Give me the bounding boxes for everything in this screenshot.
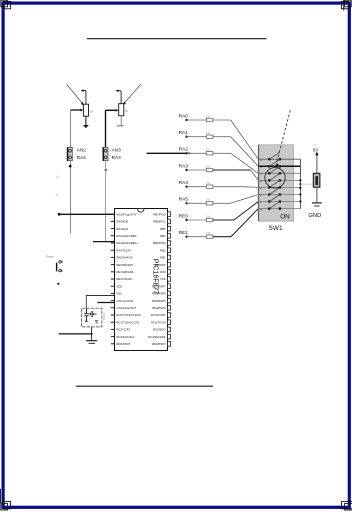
SW1 lever row 6	[269, 188, 280, 195]
svg-text:RA3/AN3/VREF+: RA3/AN3/VREF+	[116, 241, 138, 245]
svg-text:RC2/CCP1: RC2/CCP1	[116, 328, 130, 332]
svg-text:10k: 10k	[206, 148, 211, 152]
svg-text:10k: 10k	[206, 231, 211, 235]
U1 left pin 18	[111, 335, 135, 339]
svg-text:5V: 5V	[313, 147, 320, 152]
svg-text:RA4/T0CKI: RA4/T0CKI	[116, 248, 130, 252]
svg-text:RA0: RA0	[179, 113, 189, 119]
wire RA1 diagonal to SW1	[231, 137, 259, 167]
SW1 row 3 wire	[258, 172, 300, 174]
resistor R7 body	[206, 218, 213, 221]
U1 right pin 34	[160, 255, 170, 260]
U1 left pin 7	[111, 256, 133, 260]
U1 left pin 8	[111, 263, 134, 267]
resistor R4 body	[206, 168, 213, 171]
svg-text:RA5: RA5	[179, 197, 189, 203]
U1 left pin 16	[111, 320, 140, 324]
wire RA4 after resistor	[213, 186, 242, 188]
SW1 row 4 wire	[258, 179, 300, 181]
U1 right pin 25	[151, 320, 171, 325]
wire crystal box to ground	[91, 327, 93, 341]
wire RA4 diagonal to SW1	[242, 186, 258, 189]
node dot MCLR wire left end	[58, 213, 61, 216]
junction dot RE0	[185, 219, 187, 221]
ground (RV2, bar style)	[117, 125, 124, 127]
wire resistor to ground	[316, 187, 318, 203]
resistor R6 body	[206, 202, 213, 205]
wire RA2 from pot (bold)	[147, 152, 191, 154]
SW1 row 7 wire	[258, 201, 300, 203]
U1 right pin 29	[152, 291, 170, 296]
ground (RV1, arrow style)	[83, 125, 89, 128]
SW1 contact dots row 6	[268, 193, 281, 196]
U1 right pin 40	[153, 212, 170, 217]
wire RA0 after resistor	[213, 119, 231, 121]
SW1 lever row 8	[269, 202, 280, 209]
junction dot RA5	[185, 202, 187, 204]
U1 right pin 27	[152, 306, 170, 311]
SW1 row 1 wire	[258, 158, 300, 160]
svg-text:1k: 1k	[125, 109, 129, 113]
svg-text:SW1: SW1	[268, 225, 283, 232]
U1 right pin 24	[153, 327, 170, 332]
SW1 lever row 2	[269, 159, 280, 166]
svg-text:10k: 10k	[206, 181, 211, 185]
crystal X1	[88, 311, 96, 317]
SW1 contact dots row 2	[268, 165, 281, 168]
svg-text:RE1/WR/AN6: RE1/WR/AN6	[116, 270, 134, 274]
SW1 contact dots row 7	[268, 200, 281, 203]
U1 left pin 19	[111, 342, 131, 346]
wire RV1 top	[85, 91, 87, 105]
svg-text:RA1: RA1	[179, 130, 189, 136]
wire MCLR (pin1)	[59, 213, 115, 215]
svg-text:RA3: RA3	[112, 155, 122, 160]
svg-text:RB2: RB2	[160, 248, 166, 252]
potentiometer RV2 wiper	[106, 109, 119, 112]
svg-text:10k: 10k	[206, 114, 211, 118]
crystal group box	[82, 308, 102, 327]
svg-text:1k: 1k	[55, 175, 59, 179]
SW1 lever row 1	[269, 152, 280, 159]
svg-text:Reset: Reset	[46, 254, 54, 258]
connector J2 pin circles	[104, 149, 107, 158]
svg-text:RD0/PSP0: RD0/PSP0	[116, 342, 130, 346]
svg-text:RB4: RB4	[160, 234, 166, 238]
wire RE1 to resistor	[187, 236, 207, 238]
svg-text:RE2/CS/AN7: RE2/CS/AN7	[116, 277, 133, 281]
resistor R1 body	[206, 118, 213, 121]
svg-text:AN3: AN3	[112, 148, 122, 153]
wire RA2 after resistor	[213, 152, 231, 154]
SW1 contact dots row 1	[268, 158, 281, 161]
corner tick bottom-left	[0, 489, 2, 504]
svg-text:RE0: RE0	[179, 213, 189, 219]
U1 notch	[138, 209, 144, 212]
wire top horizontal	[87, 38, 267, 40]
U1 left pin 12	[111, 292, 122, 296]
capacitor C2	[95, 321, 98, 323]
SW1 row 2 wire	[258, 165, 300, 167]
svg-text:RA1/AN1: RA1/AN1	[116, 227, 128, 231]
svg-text:RC6/TX/CK: RC6/TX/CK	[151, 320, 166, 324]
SW1 lever row 3	[269, 166, 280, 173]
U1 right pin 33	[155, 262, 171, 267]
svg-text:RB5: RB5	[160, 227, 166, 231]
svg-text:RC7/RX/DT: RC7/RX/DT	[151, 313, 166, 317]
svg-text:RA3: RA3	[179, 163, 189, 169]
svg-text:RC0/T1OSO/T1CKI: RC0/T1OSO/T1CKI	[116, 313, 141, 317]
SW1 body	[258, 145, 293, 221]
corner mark top-left	[1, 0, 11, 9]
U1 right pin 30	[152, 284, 170, 289]
SW1 contact dots row 4	[268, 179, 281, 182]
resistor R5 body	[206, 185, 213, 188]
resistor R9 body	[313, 173, 320, 187]
U1 right pin 22	[152, 342, 170, 347]
ground (oscillator)	[86, 341, 97, 344]
U1 left pin 6	[111, 248, 131, 252]
svg-text:RD4/PSP4: RD4/PSP4	[152, 306, 166, 310]
svg-text:VDD: VDD	[160, 270, 166, 274]
svg-text:RC3/SCK/SCL: RC3/SCK/SCL	[116, 335, 135, 339]
wire RE0 diagonal to SW1	[234, 202, 258, 221]
power 5V symbol (RV2 top)	[115, 90, 121, 93]
wire RA3 to resistor	[187, 169, 207, 171]
svg-text:RC4/SDI/SDA: RC4/SDI/SDA	[148, 335, 166, 339]
svg-text:RD5/PSP5: RD5/PSP5	[152, 299, 166, 303]
SW1 row 5 wire	[258, 186, 300, 188]
wire RE0 after resistor	[213, 219, 234, 221]
U1 left pin 9	[111, 270, 134, 274]
wire RV2 wiper down to connector (bold)	[105, 110, 107, 147]
svg-text:AN2: AN2	[77, 148, 87, 153]
wire RA1 after resistor	[213, 136, 231, 138]
corner tick top-right	[343, 0, 345, 10]
U1 right pin 26	[151, 313, 171, 318]
wire J2 down	[105, 161, 107, 242]
U1 right pin 38	[160, 226, 170, 231]
resistor R3 body	[206, 152, 213, 155]
wire RE0 to resistor	[187, 219, 207, 221]
svg-text:RA2: RA2	[77, 155, 87, 160]
SW1 row 8 wire	[258, 208, 300, 210]
push button (reset)	[57, 261, 62, 272]
U1 right pin 23	[148, 334, 170, 339]
svg-text:RB3/PGM: RB3/PGM	[153, 241, 166, 245]
U1 left pin 11	[111, 284, 123, 288]
U1 right pin 28	[152, 298, 170, 303]
svg-text:10k: 10k	[206, 198, 211, 202]
U1 left pin 2	[111, 220, 129, 224]
wire RA5 after resistor	[213, 202, 231, 204]
svg-text:RD6/PSP6: RD6/PSP6	[152, 292, 166, 296]
connector J1 body	[67, 147, 72, 160]
wire RA2 to resistor	[187, 152, 207, 154]
svg-text:RA0/AN0: RA0/AN0	[116, 220, 128, 224]
potentiometer RV2 body	[119, 104, 124, 116]
resistor R8 body	[206, 235, 213, 238]
wire RA0 diagonal to SW1	[231, 120, 259, 159]
U1 left pin 13	[111, 299, 133, 303]
junction dot (left margin)	[57, 283, 59, 285]
corner mark bottom-right	[341, 501, 352, 510]
U1 right pin 39	[153, 219, 170, 224]
U1 left pin 15	[111, 313, 141, 317]
U1 left pin 14	[111, 306, 137, 310]
bus junction dots	[299, 179, 301, 202]
wire RA5 diagonal to SW1	[231, 195, 259, 204]
U1 right pin 31	[160, 277, 171, 282]
svg-text:RA5/AN4/SS: RA5/AN4/SS	[116, 256, 132, 260]
svg-text:10k: 10k	[206, 131, 211, 135]
junction dot RA2	[185, 152, 187, 154]
SW1 contact dots row 8	[268, 207, 281, 210]
wire RA3 stub to pin5	[93, 241, 115, 243]
SW1 row 6 wire	[258, 194, 300, 196]
PIC16F877 U1 body	[115, 209, 168, 351]
svg-text:GND: GND	[308, 213, 321, 219]
wire RA3 diagonal to SW1	[251, 170, 259, 180]
U1 left pin 10	[111, 277, 133, 281]
U1 right pin 36	[153, 241, 170, 246]
wire horizontal at oscillator ground	[59, 333, 93, 335]
wire RE1 after resistor	[213, 236, 231, 238]
svg-text:RE0/RD/AN5: RE0/RD/AN5	[116, 263, 133, 267]
junction dot RA3	[185, 169, 187, 171]
corner mark bottom-left	[1, 501, 11, 510]
U1 right pin 32	[160, 270, 171, 275]
svg-text:VSS: VSS	[116, 292, 122, 296]
svg-text:RC5/SDO: RC5/SDO	[153, 328, 166, 332]
wire RV1 wiper to node (vertical)	[69, 110, 71, 233]
potentiometer RV2 adjust arrow	[123, 84, 141, 105]
junction below J2	[105, 169, 107, 171]
SW1 rotary circle	[265, 168, 285, 188]
svg-text:RE1: RE1	[179, 230, 189, 236]
junction dot RA0	[185, 119, 187, 121]
wire RA5 to resistor	[187, 202, 207, 204]
power arrow 5V	[315, 152, 318, 174]
wire RE1 diagonal to SW1	[231, 209, 258, 237]
U1 left pin 3	[111, 227, 129, 231]
connector J1 pin circles	[69, 149, 72, 158]
svg-text:RB6/PGC: RB6/PGC	[153, 220, 165, 224]
SW1 lever row 4	[269, 173, 280, 180]
SW1 right bus	[299, 159, 301, 208]
svg-text:MCLR/Vpp/THV: MCLR/Vpp/THV	[116, 212, 136, 216]
U1 left pin 17	[111, 328, 131, 332]
wire RV2 bottom	[120, 116, 122, 126]
wire bus to pull resistor	[300, 183, 316, 185]
svg-text:RB0/INT: RB0/INT	[155, 263, 166, 267]
SW1 contact dots row 3	[268, 172, 281, 175]
svg-text:10k: 10k	[206, 164, 211, 168]
power 5V symbol (RV1 top)	[81, 89, 86, 92]
svg-text:4MHz: 4MHz	[102, 312, 106, 320]
wire RV1 bottom	[85, 116, 87, 125]
ground (right)	[312, 203, 322, 206]
svg-text:VSS: VSS	[160, 277, 166, 281]
svg-text:RA4: RA4	[179, 180, 189, 186]
capacitor C1	[84, 308, 88, 321]
potentiometer RV1 wiper	[70, 109, 83, 112]
svg-text:RC1/T1OSI/CCP2: RC1/T1OSI/CCP2	[116, 320, 139, 324]
svg-text:VDD: VDD	[116, 284, 122, 288]
SW1 lever row 7	[269, 195, 280, 202]
svg-text:OSC1/CLKIN: OSC1/CLKIN	[116, 299, 133, 303]
U1 left pin 5	[111, 241, 138, 245]
wire RA2 diagonal to SW1	[231, 153, 259, 173]
SW1 contact dots row 5	[268, 186, 281, 189]
svg-text:OSC2/CLKOUT: OSC2/CLKOUT	[116, 306, 136, 310]
svg-text:10k: 10k	[206, 214, 211, 218]
svg-text:RB1: RB1	[160, 256, 166, 260]
wire RA1 to resistor	[187, 136, 207, 138]
junction dot RA1	[185, 136, 187, 138]
wire bottom horizontal	[76, 385, 213, 387]
U1 right pin 37	[160, 234, 170, 239]
wire OSC2 stub	[97, 302, 114, 304]
connector J2 body	[103, 147, 108, 160]
svg-text:ON: ON	[280, 214, 290, 221]
corner mark top-right	[341, 0, 351, 9]
wire RV2 top	[120, 91, 122, 104]
U1 right pin 35	[160, 248, 170, 253]
wire RA3 after resistor	[213, 169, 251, 171]
junction dot RA4	[185, 186, 187, 188]
wire OSC1	[86, 296, 114, 309]
svg-text:RA2: RA2	[179, 147, 189, 153]
resistor R2 body	[206, 135, 213, 138]
U1 left pin 4	[111, 234, 137, 238]
wire RA4 to resistor	[187, 186, 207, 188]
svg-text:RB7/PGD: RB7/PGD	[153, 212, 165, 216]
annotation dashed pointer	[276, 110, 290, 167]
SW1 lever row 5	[269, 180, 280, 187]
U1 left pin 1	[111, 212, 137, 216]
svg-text:RD3/PSP3: RD3/PSP3	[152, 342, 166, 346]
svg-text:RA2/AN2/VREF-: RA2/AN2/VREF-	[116, 234, 137, 238]
junction below J1	[68, 164, 72, 168]
svg-text:RD7/PSP7: RD7/PSP7	[152, 284, 166, 288]
wire RA0 to resistor	[187, 119, 207, 121]
svg-text:1k: 1k	[54, 193, 58, 197]
potentiometer RV1 adjust arrow	[67, 84, 84, 105]
svg-text:1k: 1k	[90, 110, 94, 114]
junction dot RE1	[185, 236, 187, 238]
potentiometer RV1 body	[83, 104, 88, 116]
